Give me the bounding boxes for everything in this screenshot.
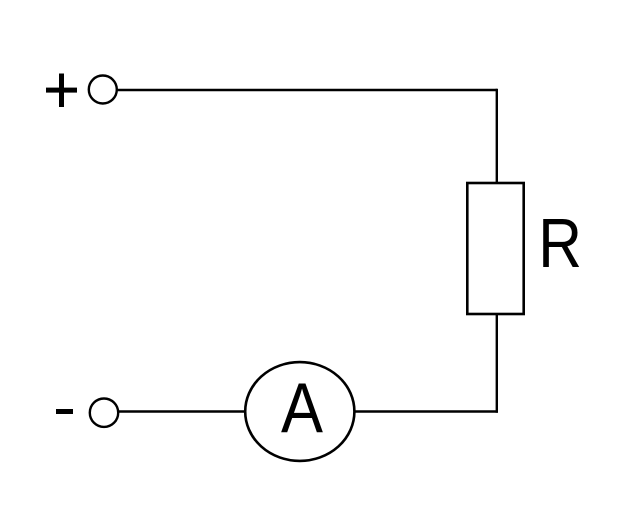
svg-text:R: R (538, 204, 582, 282)
svg-text:A: A (281, 370, 323, 448)
